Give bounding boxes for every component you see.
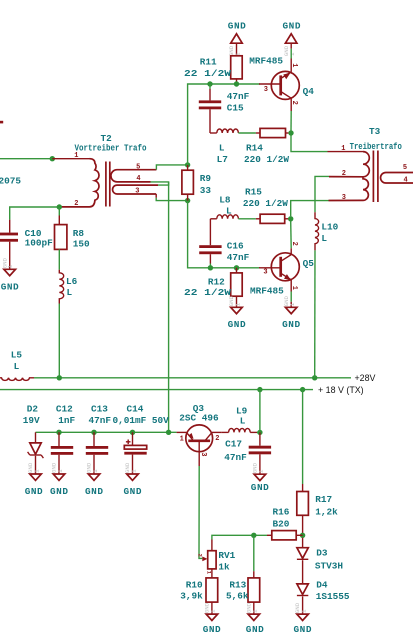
label L9 value: [240, 415, 246, 426]
node C14 on rail: [130, 430, 135, 435]
svg-text:GND: GND: [251, 482, 269, 493]
node R15 right junction: [288, 216, 293, 221]
label C17 name: [225, 438, 242, 449]
svg-text:R9: R9: [200, 173, 212, 184]
label Q5 name: [303, 258, 315, 269]
label R11 value: [184, 68, 231, 79]
label R8 value: [73, 239, 90, 250]
label R16 name: [273, 506, 290, 517]
wire T2 pin4 jog: [151, 182, 169, 185]
resistor R9: [182, 165, 194, 201]
svg-text:D4: D4: [316, 579, 328, 590]
svg-text:L6: L6: [66, 276, 78, 287]
label R17 value: [315, 507, 338, 518]
ground symbol under Q5: [283, 295, 297, 313]
label R12 value: [184, 287, 231, 298]
svg-text:L: L: [321, 233, 327, 244]
pin number T3-1: [341, 145, 345, 153]
svg-text:D2: D2: [27, 403, 39, 414]
label Q4 transistor value: [249, 55, 283, 66]
label T2 value: [75, 143, 147, 154]
wire C10 net: [10, 207, 60, 220]
svg-text:L: L: [226, 206, 232, 217]
label GND under D2: [25, 486, 43, 497]
ground symbol above Q4: [283, 34, 297, 56]
wire T3 pin2 to L10: [315, 176, 329, 212]
label Q4 name: [303, 86, 315, 97]
transistor Q3: [177, 425, 222, 466]
svg-text:C17: C17: [225, 438, 242, 449]
label L10 name: [321, 222, 338, 233]
transistor Q5: [259, 248, 299, 291]
svg-text:RV1: RV1: [218, 550, 235, 561]
pin number Q5-1: [290, 286, 298, 290]
svg-text:GND: GND: [1, 282, 19, 293]
label D4 value: [316, 591, 350, 602]
label R15 value: [243, 198, 288, 209]
svg-text:2075: 2075: [0, 176, 21, 187]
resistor R14: [256, 128, 289, 137]
svg-text:B20: B20: [273, 518, 290, 529]
wire Q4 collector to R14 node: [290, 111, 292, 132]
transistor Q4: [259, 59, 299, 112]
label C10 value: [25, 238, 54, 249]
svg-text:1,2k: 1,2k: [315, 507, 338, 518]
pin number T3-5: [403, 164, 407, 172]
label +18V TX: [318, 385, 364, 395]
wire R14 node to T3 pin1: [291, 136, 328, 152]
svg-text:R12: R12: [208, 276, 225, 287]
svg-text:2: 2: [290, 242, 298, 246]
wire R9 top to Q4 base rail: [188, 84, 260, 165]
svg-text:2: 2: [342, 170, 346, 178]
label T2 name: [101, 133, 113, 144]
svg-text:0,01mF 50V: 0,01mF 50V: [113, 415, 170, 426]
label L7 value: [219, 142, 225, 153]
svg-text:MRF485: MRF485: [249, 55, 283, 66]
svg-text:1nF: 1nF: [58, 415, 75, 426]
resistor R12: [231, 268, 243, 302]
svg-text:2: 2: [290, 101, 298, 105]
label D2 name: [27, 403, 39, 414]
svg-text:STV3H: STV3H: [315, 560, 343, 571]
node C13 on rail: [91, 430, 96, 435]
svg-text:GND: GND: [124, 486, 142, 497]
label R9 value: [200, 185, 212, 196]
svg-text:220 1/2W: 220 1/2W: [243, 198, 288, 209]
label GND above Q4: [283, 21, 301, 32]
svg-text:1: 1: [341, 145, 345, 153]
label D2 value: [23, 415, 40, 426]
svg-text:GND: GND: [50, 486, 68, 497]
svg-text:Q5: Q5: [303, 258, 315, 269]
label C13 name: [91, 403, 108, 414]
svg-text:GND: GND: [246, 624, 264, 635]
svg-text:2: 2: [74, 200, 78, 208]
label RV1 value: [218, 561, 230, 572]
label C15 value: [227, 91, 250, 102]
svg-text:R10: R10: [186, 580, 203, 591]
wire Q5 emitter to GND: [290, 292, 292, 302]
svg-text:3: 3: [135, 187, 139, 195]
label R10 value: [180, 590, 203, 601]
inductor L7: [210, 129, 256, 133]
inductor L5: [0, 378, 34, 381]
node L6 on +28V rail: [57, 375, 62, 380]
label RV1 name: [218, 550, 235, 561]
node R9 bottom junction: [185, 198, 190, 203]
label T3 name: [369, 126, 381, 137]
wire +18V rail: [0, 389, 313, 391]
svg-text:47nF: 47nF: [227, 252, 250, 263]
label R16 value: [273, 518, 290, 529]
node R12 top junction: [234, 265, 239, 270]
label R14 value: [244, 154, 289, 165]
svg-text:5: 5: [403, 164, 407, 172]
node C15 top junction: [207, 81, 212, 86]
resistor R8: [55, 207, 67, 249]
label Q5 value: [250, 285, 284, 296]
pin number T2-2: [74, 200, 78, 208]
svg-text:1: 1: [289, 52, 296, 56]
node T2 pin1 junction: [50, 156, 55, 161]
svg-text:3,9k: 3,9k: [180, 590, 203, 601]
svg-text:1: 1: [130, 469, 137, 473]
svg-text:R17: R17: [315, 494, 332, 505]
node C10/R8/T2 junction: [57, 204, 62, 209]
potentiometer RV1: [202, 540, 216, 578]
capacitor C15: [199, 84, 221, 133]
label L9 name: [236, 405, 248, 416]
label GND under D4: [294, 624, 312, 635]
wire +18V to L9 node: [259, 390, 261, 433]
label R11 name: [200, 57, 217, 68]
svg-text:+28V: +28V: [355, 373, 376, 383]
capacitor C13: [86, 432, 108, 474]
ground symbol above R11: [228, 34, 242, 56]
svg-text:4: 4: [404, 177, 408, 185]
label R9 name: [200, 173, 212, 184]
label R15 name: [245, 186, 262, 197]
svg-text:3: 3: [342, 194, 346, 202]
svg-text:+ 18 V (TX): + 18 V (TX): [318, 385, 364, 395]
svg-text:1: 1: [6, 264, 13, 268]
label L5 value: [14, 361, 20, 372]
label C14 name: [127, 403, 144, 414]
pin number T3-4: [404, 177, 408, 185]
svg-text:3: 3: [264, 86, 268, 94]
svg-text:22 1/2W: 22 1/2W: [184, 287, 231, 298]
svg-text:L5: L5: [11, 350, 23, 361]
node C16 bottom junction: [208, 265, 213, 270]
wire L10 to +28V rail: [314, 250, 316, 377]
svg-text:GND: GND: [228, 319, 246, 330]
node R11 bottom junction: [234, 81, 239, 86]
pin number Q4-3: [264, 86, 268, 94]
svg-text:Vortreiber Trafo: Vortreiber Trafo: [75, 143, 147, 154]
svg-text:220 1/2W: 220 1/2W: [244, 154, 289, 165]
svg-text:1: 1: [234, 302, 241, 306]
svg-text:L7: L7: [217, 154, 228, 165]
node C12 on rail: [56, 430, 61, 435]
svg-text:47nF: 47nF: [227, 91, 250, 102]
svg-text:GND: GND: [203, 624, 221, 635]
resistor R17: [297, 390, 309, 534]
capacitor C10: [0, 220, 18, 270]
ground symbol under R12: [228, 295, 242, 313]
svg-text:3: 3: [199, 452, 207, 456]
resistor R11: [231, 56, 243, 84]
inductor L10: [315, 212, 319, 250]
ground symbol under R10: [203, 602, 217, 620]
svg-text:33: 33: [200, 185, 212, 196]
svg-text:L: L: [14, 361, 20, 372]
capacitor C12: [51, 432, 73, 474]
capacitor C17: [249, 432, 271, 474]
label GND under R13: [246, 624, 264, 635]
label D4 name: [316, 579, 328, 590]
svg-text:GND: GND: [25, 486, 43, 497]
label R12 name: [208, 276, 225, 287]
svg-text:1S1555: 1S1555: [316, 591, 350, 602]
svg-text:1: 1: [33, 469, 40, 473]
label R10 name: [186, 580, 203, 591]
svg-text:C13: C13: [91, 403, 108, 414]
svg-text:1k: 1k: [218, 561, 230, 572]
svg-text:GND: GND: [228, 21, 246, 32]
svg-text:1: 1: [289, 302, 296, 306]
label L5 name: [11, 350, 23, 361]
transformer T2: [59, 159, 158, 207]
label L10 value: [321, 233, 327, 244]
label D3 name: [316, 547, 328, 558]
label Q3 value: [179, 412, 219, 423]
wire T3 pin1 stub: [328, 151, 364, 153]
inductor L6: [59, 249, 63, 303]
wire +28V rail: [34, 377, 351, 379]
label C16 name: [227, 240, 244, 251]
svg-text:2: 2: [215, 435, 219, 443]
ground symbol under C14: [124, 462, 138, 480]
inductor L9: [222, 428, 260, 432]
label L8 value: [226, 206, 232, 217]
label L6 name: [66, 276, 78, 287]
svg-text:1: 1: [252, 609, 259, 613]
pin number Q5-3: [263, 268, 267, 276]
node R14 right junction: [288, 130, 293, 135]
capacitor C16: [199, 219, 221, 268]
svg-text:L10: L10: [321, 222, 338, 233]
label C15 name: [227, 102, 244, 113]
wire decoupling rail: [36, 431, 177, 433]
label 2075 clipped: [0, 176, 21, 187]
diode D3: [297, 538, 308, 584]
svg-text:5,6k: 5,6k: [226, 590, 249, 601]
pin number T3-2: [342, 170, 346, 178]
pin number Q3-1: [180, 436, 184, 444]
label L6 value: [67, 287, 73, 298]
wire Q4 emitter to GND: [290, 49, 292, 59]
wire T2 pin4 long vertical to bottom rail: [168, 182, 170, 432]
node R9 top junction: [185, 162, 190, 167]
svg-text:47nF: 47nF: [224, 452, 247, 463]
svg-text:MRF485: MRF485: [250, 285, 284, 296]
label L8 name: [219, 194, 231, 205]
wire T2 pin5 to R9 top: [156, 165, 187, 170]
diode D4: [297, 584, 308, 614]
svg-text:L: L: [67, 287, 73, 298]
label Q3 name: [193, 403, 205, 414]
wire R16 net: [212, 535, 267, 539]
label GND under C13: [85, 486, 103, 497]
pin number Q4-1: [290, 63, 298, 67]
ground symbol under C17: [252, 462, 266, 480]
svg-text:GND: GND: [294, 624, 312, 635]
label GND under C12: [50, 486, 68, 497]
pin number Q3-2: [215, 435, 219, 443]
svg-text:C16: C16: [227, 240, 244, 251]
pin number T2-4: [136, 175, 140, 183]
label GND under R12: [228, 319, 246, 330]
pin number T2-3: [135, 187, 139, 195]
transformer T3: [329, 151, 413, 203]
ground symbol under C10: [1, 257, 15, 275]
svg-text:1: 1: [210, 609, 217, 613]
label L7 name: [217, 154, 228, 165]
clipped element at left edge: [0, 121, 3, 124]
label R13 value: [226, 590, 249, 601]
pin number Q5-2: [290, 242, 298, 246]
svg-text:R14: R14: [246, 142, 263, 153]
svg-text:C12: C12: [56, 403, 73, 414]
label R14 name: [246, 142, 263, 153]
label C12 value: [58, 415, 75, 426]
label R17 name: [315, 494, 332, 505]
label GND under C10: [1, 282, 19, 293]
svg-text:GND: GND: [283, 21, 301, 32]
pin number RV1-2: [196, 554, 203, 558]
svg-text:R11: R11: [200, 57, 217, 68]
wire R15 node to T3 pin3: [291, 201, 329, 217]
svg-text:2SC 496: 2SC 496: [179, 412, 219, 423]
resistor R10: [206, 578, 218, 614]
label D3 value: [315, 560, 343, 571]
svg-text:GND: GND: [85, 486, 103, 497]
svg-text:T3: T3: [369, 126, 381, 137]
svg-text:3: 3: [263, 268, 267, 276]
ground symbol under C13: [86, 462, 100, 480]
pin number T2-5: [136, 163, 140, 171]
svg-text:D3: D3: [316, 547, 328, 558]
label GND under R10: [203, 624, 221, 635]
svg-text:1: 1: [57, 469, 64, 473]
wire Q3 base to RV1 wiper: [199, 466, 202, 558]
node L10 on +28V rail: [312, 375, 317, 380]
label C10 name: [25, 228, 42, 239]
label R13 name: [229, 580, 246, 591]
ground symbol under D2: [27, 462, 41, 480]
capacitor C14 polarized: [124, 432, 146, 474]
diode D2 zener: [28, 432, 44, 474]
svg-text:L: L: [240, 415, 246, 426]
node R17 branch on +18V rail: [300, 387, 305, 392]
svg-text:L8: L8: [219, 194, 231, 205]
pin number Q3-3: [199, 452, 207, 456]
resistor R16: [267, 531, 303, 540]
wire T2 pin3 to R9 bottom: [156, 194, 187, 201]
pin number Q4-2: [290, 101, 298, 105]
label T3 value: [350, 141, 403, 152]
svg-text:4: 4: [136, 175, 140, 183]
node L9 C17 junction: [257, 430, 262, 435]
label R8 name: [73, 228, 85, 239]
wire R9 bottom to Q5 base rail: [188, 201, 260, 268]
svg-text:C14: C14: [127, 403, 144, 414]
svg-text:1: 1: [74, 152, 78, 160]
label GND under Q5: [282, 319, 300, 330]
svg-text:R16: R16: [273, 506, 290, 517]
svg-text:47nF: 47nF: [89, 415, 112, 426]
svg-text:R15: R15: [245, 186, 262, 197]
label C12 name: [56, 403, 73, 414]
wire net to T2 pin 1: [0, 158, 52, 160]
label C14 value: [113, 415, 170, 426]
label GND under C17: [251, 482, 269, 493]
svg-text:1: 1: [300, 609, 307, 613]
node R16 D3 R17 junction: [300, 533, 305, 538]
svg-text:150: 150: [73, 239, 90, 250]
label +28V: [355, 373, 376, 383]
svg-text:100pF: 100pF: [25, 238, 54, 249]
label C17 value: [224, 452, 247, 463]
resistor R15: [256, 214, 288, 223]
svg-text:R13: R13: [229, 580, 246, 591]
pin number T3-3: [342, 194, 346, 202]
wire L6 to +28V rail: [58, 304, 60, 378]
wire Q5 collector to R15 node: [290, 221, 293, 248]
node T2pin4 wire on rail: [166, 430, 171, 435]
svg-text:C15: C15: [227, 102, 244, 113]
node L9 branch on +18V rail: [257, 387, 262, 392]
svg-text:GND: GND: [282, 319, 300, 330]
pin number RV1-1: [205, 571, 212, 575]
svg-text:5: 5: [136, 163, 140, 171]
svg-text:1: 1: [290, 63, 298, 67]
label C16 value: [227, 252, 250, 263]
svg-text:1: 1: [92, 469, 99, 473]
svg-text:22 1/2W: 22 1/2W: [184, 68, 231, 79]
svg-text:1: 1: [180, 436, 184, 444]
svg-text:Q4: Q4: [303, 86, 315, 97]
svg-text:Treibertrafo: Treibertrafo: [350, 141, 403, 152]
pin number T2-1: [74, 152, 78, 160]
label GND above R11: [228, 21, 246, 32]
node R13 branch junction: [251, 533, 256, 538]
svg-text:1: 1: [290, 286, 298, 290]
ground symbol under D4: [294, 602, 308, 620]
svg-text:R8: R8: [73, 228, 85, 239]
svg-text:1: 1: [258, 469, 265, 473]
svg-text:19V: 19V: [23, 415, 40, 426]
resistor R13: [248, 535, 260, 614]
svg-text:L: L: [219, 142, 225, 153]
ground symbol under R13: [245, 602, 259, 620]
inductor L8: [210, 215, 256, 219]
wire T2 pin1 stub: [52, 158, 89, 160]
ground symbol under C12: [51, 462, 65, 480]
label GND under C14: [124, 486, 142, 497]
label C13 value: [89, 415, 112, 426]
